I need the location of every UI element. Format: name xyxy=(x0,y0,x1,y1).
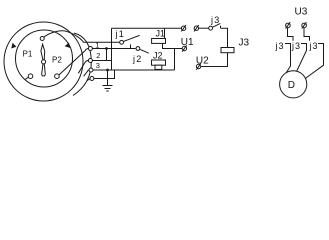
svg-text:U1: U1 xyxy=(181,37,194,48)
switch j1 blade xyxy=(123,35,139,41)
switch j3 fixed contact tick xyxy=(220,26,222,29)
gauge terminal 2 xyxy=(88,59,92,63)
gauge needle upper blade (spear head and shaft) xyxy=(41,44,45,60)
gauge terminal 3 xyxy=(89,68,93,72)
svg-text:j2: j2 xyxy=(132,54,142,64)
U1 lower drop to bottom wire xyxy=(174,49,176,71)
contact post P1 xyxy=(28,74,33,79)
wire j3 to J3 coil xyxy=(221,28,228,47)
svg-text:j1: j1 xyxy=(115,29,125,39)
switch j3 blade xyxy=(212,23,220,27)
svg-text:J1: J1 xyxy=(156,28,166,38)
wire 3: terminal 3 to U1 drop (bottom wire) xyxy=(93,69,175,71)
svg-text:P1: P1 xyxy=(23,50,33,59)
svg-text:j3: j3 xyxy=(210,15,220,25)
ground xyxy=(103,86,113,92)
gauge needle tail xyxy=(42,64,46,76)
switch j3 pivot xyxy=(209,26,213,30)
wire 2: terminal 2 to riser xyxy=(92,60,111,62)
J1 top stub xyxy=(164,28,166,38)
wire U1 right terminal to switch j3 xyxy=(199,27,209,29)
contact j3-B blade xyxy=(297,44,307,71)
contact post P2 xyxy=(55,74,60,79)
svg-text:J3: J3 xyxy=(239,37,250,48)
pressure gauge P outer case circle xyxy=(4,22,83,101)
svg-text:3: 3 xyxy=(96,61,100,70)
wire needle contact to switch j1 xyxy=(44,31,120,43)
relay coil J1 xyxy=(152,39,166,44)
wire to terminal 2 xyxy=(78,61,88,74)
J3 bottom wire to U2 xyxy=(201,53,228,67)
dial arrow left (ccw arrowhead) xyxy=(11,43,16,49)
pressure gauge terminal bump xyxy=(73,33,91,96)
gauge terminal 4 xyxy=(90,77,94,81)
wire to terminal 3 xyxy=(84,70,89,76)
switch j2 pivot xyxy=(136,47,140,51)
needle contact circle xyxy=(40,37,44,41)
contactor coil J3 xyxy=(221,48,234,53)
switch j1 pivot xyxy=(120,40,124,44)
U3 phase terminal A xyxy=(286,22,291,28)
contact j3-C blade xyxy=(305,44,323,79)
contact j3-A blade xyxy=(285,44,291,75)
svg-text:j3: j3 xyxy=(309,41,319,51)
top wire bus to U1 terminal xyxy=(112,27,182,29)
wire from post P1 xyxy=(25,77,28,79)
ground drop wire xyxy=(107,70,109,86)
junction dot wire1/riser xyxy=(105,47,108,50)
svg-text:U3: U3 xyxy=(295,6,308,17)
phase A upper lead xyxy=(288,28,294,41)
J2 foot block xyxy=(155,65,162,69)
gauge needle pivot xyxy=(42,60,46,64)
svg-text:D: D xyxy=(288,80,295,91)
svg-text:j3: j3 xyxy=(275,41,285,51)
U1 terminal lower xyxy=(182,45,187,51)
wire 4: terminal 4 to wire 3 xyxy=(94,70,115,79)
phase B upper lead xyxy=(304,28,310,41)
svg-text:U2: U2 xyxy=(196,55,209,66)
svg-text:P2: P2 xyxy=(52,56,62,65)
svg-text:J2: J2 xyxy=(153,51,163,61)
U3 phase terminal B xyxy=(302,22,307,28)
wire to terminal 4 xyxy=(87,79,90,81)
ground junction dot xyxy=(106,69,109,72)
wire post P2 to terminal 1 xyxy=(59,49,89,76)
pressure gauge inner dial circle xyxy=(16,30,73,87)
switch j2 blade xyxy=(140,49,149,53)
J1 bottom stub xyxy=(163,43,183,48)
U1 terminal upper right xyxy=(194,25,199,31)
U2 terminal xyxy=(196,63,201,69)
motor D circle xyxy=(280,71,307,98)
switch j2 fixed contact tick xyxy=(130,44,132,48)
svg-text:1: 1 xyxy=(95,41,99,50)
svg-text:j3: j3 xyxy=(291,41,301,51)
relay coil J2 xyxy=(152,60,166,65)
gauge terminal 1 xyxy=(88,47,92,51)
wire 1: terminal 1 to switch j2 feed xyxy=(92,48,135,50)
riser wire 2 to wire 1 xyxy=(106,49,108,61)
bus vertical xyxy=(111,28,113,70)
dial arrow right (cw arrowhead) xyxy=(65,43,71,48)
U1 terminal upper left xyxy=(181,25,186,31)
svg-text:2: 2 xyxy=(96,51,100,60)
